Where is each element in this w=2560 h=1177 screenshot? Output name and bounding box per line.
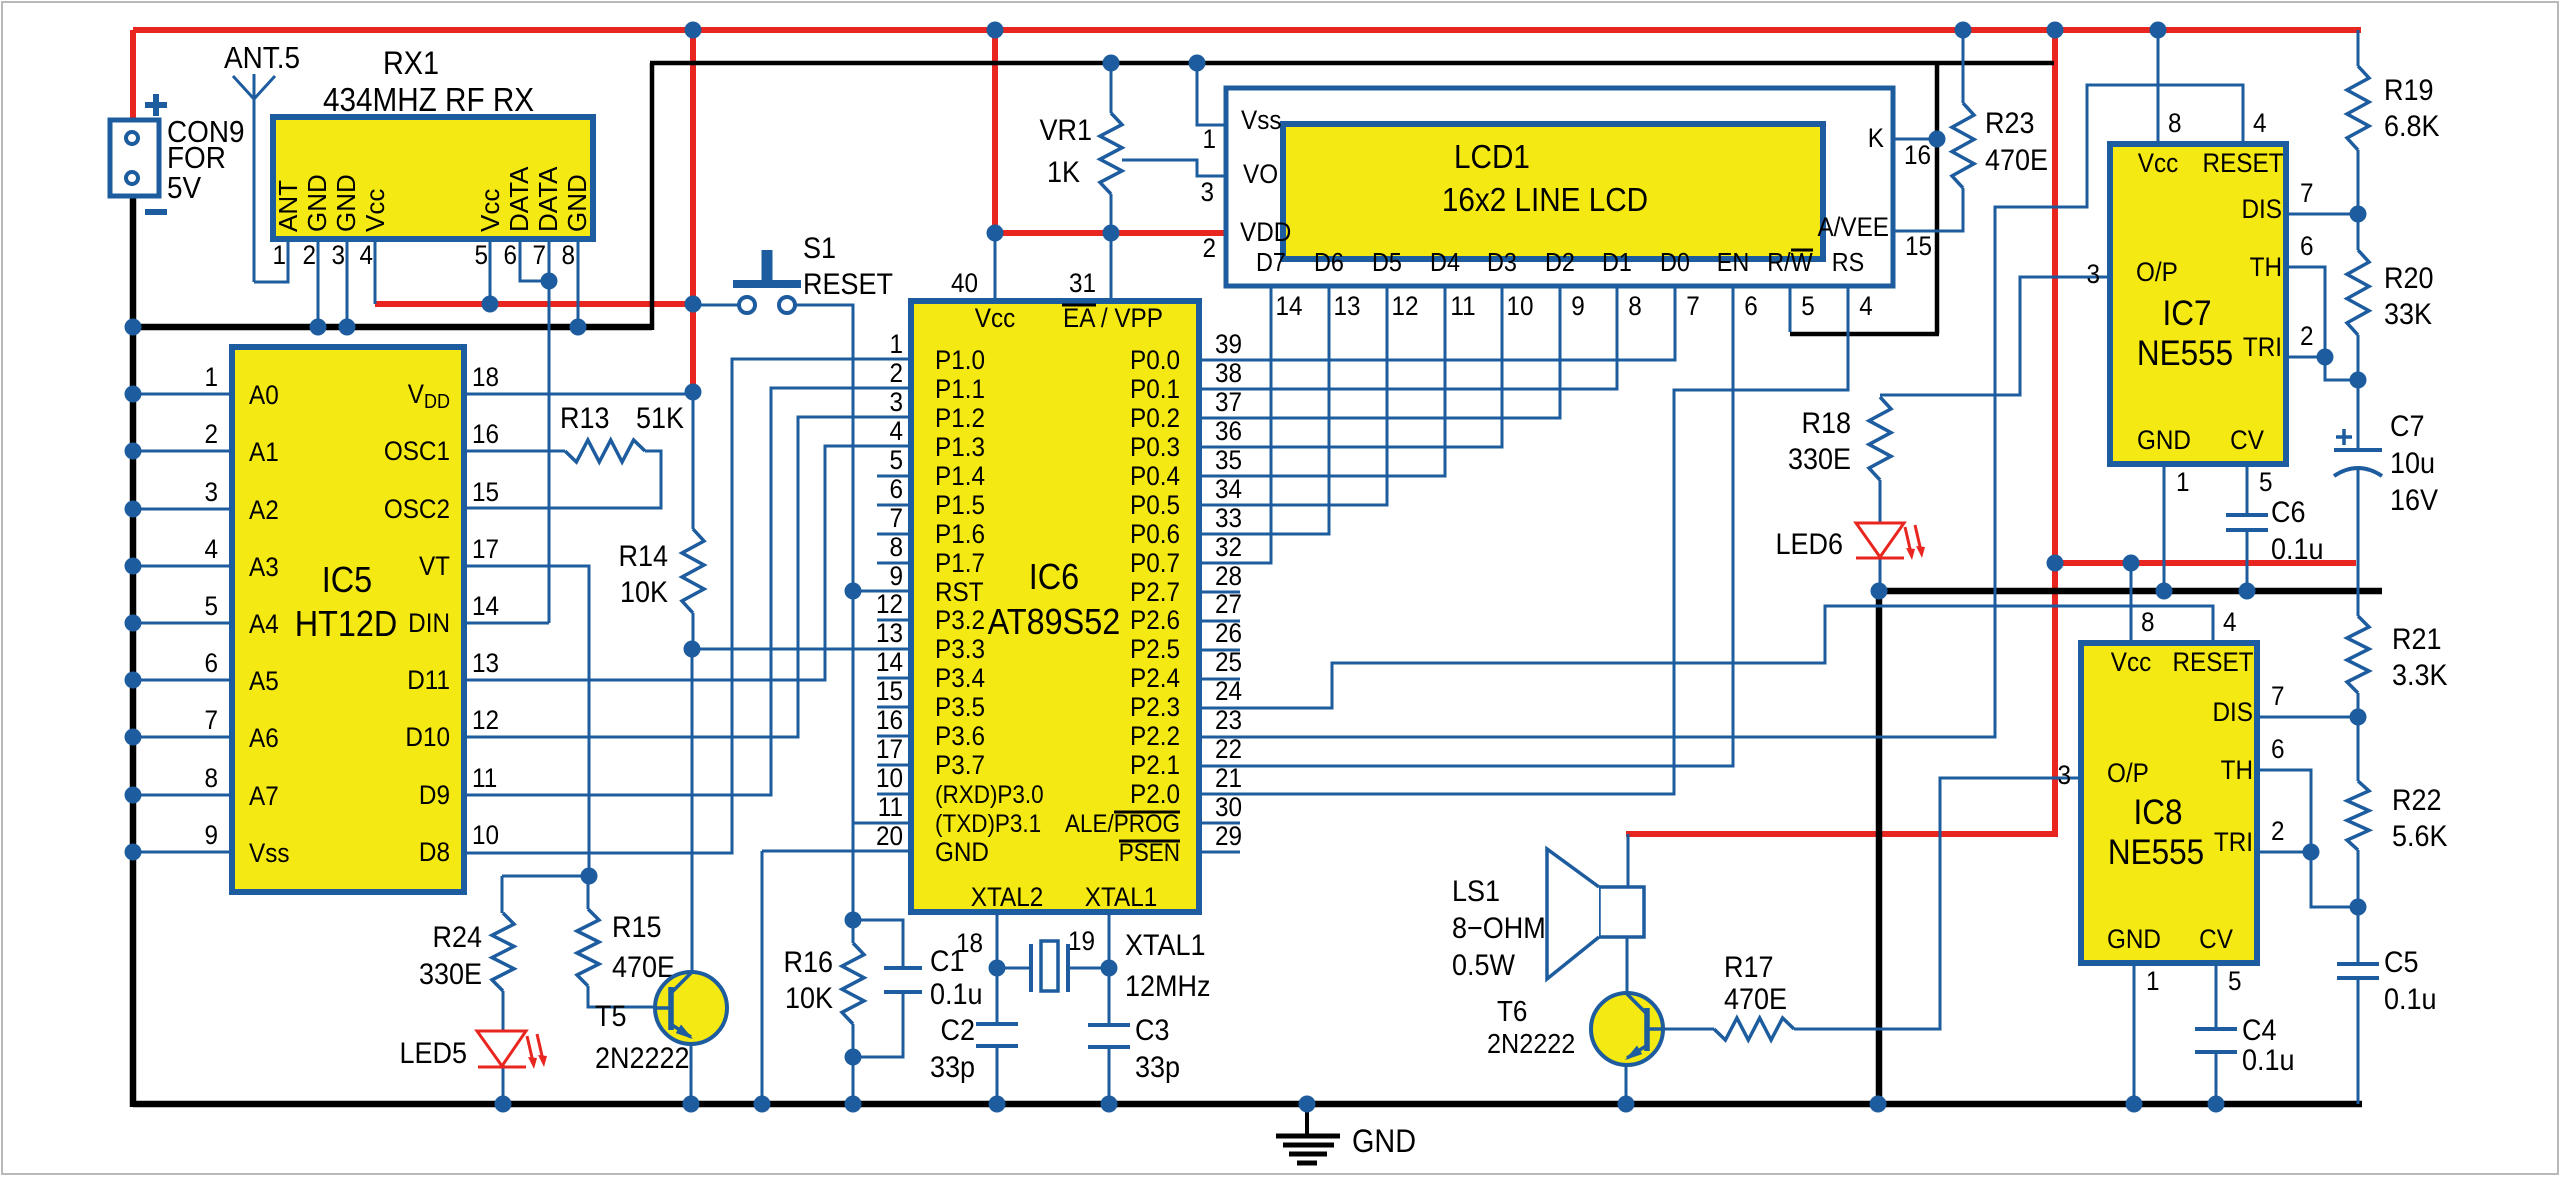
svg-text:8: 8 xyxy=(2168,109,2182,138)
capacitor C3 33p xyxy=(1088,1014,1180,1085)
svg-text:C7: C7 xyxy=(2390,410,2424,444)
svg-text:VDD: VDD xyxy=(1240,218,1291,247)
wire IC7 CV pin5 to C6 xyxy=(2246,464,2249,515)
svg-text:9: 9 xyxy=(889,562,903,591)
svg-text:D6: D6 xyxy=(1314,249,1344,277)
svg-text:R19: R19 xyxy=(2384,74,2433,108)
svg-text:1: 1 xyxy=(889,330,903,359)
svg-text:P2.0: P2.0 xyxy=(1130,780,1180,809)
svg-text:37: 37 xyxy=(1215,388,1242,417)
svg-text:5: 5 xyxy=(474,241,488,270)
antenna ANT.5 vee xyxy=(233,76,275,99)
wire VR1 bottom to +5V xyxy=(1110,194,1113,236)
svg-text:GND: GND xyxy=(2107,925,2161,954)
wire IC5 pin8 A7 to GND xyxy=(133,794,232,797)
svg-text:P2.1: P2.1 xyxy=(1130,751,1180,780)
wire T6 collector xyxy=(1626,937,1629,996)
wire R15 top lead xyxy=(587,876,590,909)
svg-text:3: 3 xyxy=(889,388,903,417)
svg-text:A0: A0 xyxy=(249,381,279,410)
wire IC6 P2.3 pin24 to IC8 RESET pin4 xyxy=(1199,606,2213,708)
svg-text:330E: 330E xyxy=(1788,443,1851,477)
svg-text:IC5: IC5 xyxy=(322,560,372,600)
switch S1 RESET xyxy=(733,232,893,313)
svg-text:P0.1: P0.1 xyxy=(1130,375,1180,404)
wire IC5 D9 pin11 to IC6 P1.1 xyxy=(464,388,911,795)
svg-text:TRI: TRI xyxy=(2214,828,2253,857)
wire GND vertical near LED6 xyxy=(1876,589,1883,1106)
svg-text:GND: GND xyxy=(1352,1124,1416,1160)
wire +5V to speaker LS1 xyxy=(1626,831,2058,837)
wire IC6 P1.7 pin8 stub xyxy=(877,562,911,565)
svg-text:OSC2: OSC2 xyxy=(384,495,450,524)
IC LCD1 16x2 LCD module xyxy=(1200,88,1932,286)
resistor R24 330E xyxy=(419,913,514,991)
wire IC6 P3.5 pin15 stub xyxy=(877,706,911,709)
potentiometer VR1 1K xyxy=(1040,113,1122,194)
svg-text:C2: C2 xyxy=(941,1014,975,1048)
svg-text:15: 15 xyxy=(876,677,903,706)
svg-text:0.1u: 0.1u xyxy=(2242,1044,2295,1078)
svg-text:10K: 10K xyxy=(785,982,833,1016)
svg-text:IC8: IC8 xyxy=(2133,794,2182,833)
svg-text:P1.7: P1.7 xyxy=(935,549,985,578)
svg-text:TH: TH xyxy=(2221,756,2253,785)
junction R16 / C1 bottom xyxy=(845,1049,862,1066)
svg-text:A3: A3 xyxy=(249,553,279,582)
svg-text:40: 40 xyxy=(951,269,978,298)
svg-text:D8: D8 xyxy=(419,838,450,867)
svg-text:15: 15 xyxy=(1905,232,1932,261)
svg-text:434MHZ RF RX: 434MHZ RF RX xyxy=(323,82,534,119)
svg-text:0.1u: 0.1u xyxy=(2271,533,2324,567)
junction RX1 DATA pins xyxy=(541,273,558,290)
svg-text:R14: R14 xyxy=(619,540,669,574)
wire T6 emitter to GND xyxy=(1625,1057,1628,1104)
wire IC6 P2.5 pin26 stub xyxy=(1199,649,1240,652)
junction A6 GND xyxy=(125,729,142,746)
svg-text:XTAL2: XTAL2 xyxy=(971,883,1043,912)
wire IC6 P3.1 pin11 stub xyxy=(877,822,911,825)
svg-text:NE555: NE555 xyxy=(2108,834,2204,873)
svg-text:P1.6: P1.6 xyxy=(935,520,985,549)
overline EA xyxy=(1062,304,1096,307)
svg-text:33p: 33p xyxy=(1135,1051,1180,1085)
svg-text:AT89S52: AT89S52 xyxy=(988,602,1121,642)
svg-text:16: 16 xyxy=(1904,141,1931,170)
capacitor C1 0.1u xyxy=(884,945,983,1012)
svg-text:19: 19 xyxy=(1068,927,1095,956)
wire IC6 P2.1 pin22 to LCD EN xyxy=(1199,286,1733,766)
svg-text:EN: EN xyxy=(1717,249,1749,277)
junction A3 GND xyxy=(125,558,142,575)
svg-text:VT: VT xyxy=(419,552,450,581)
svg-text:D3: D3 xyxy=(1487,249,1517,277)
wire speaker top to +5V xyxy=(1627,834,1630,887)
svg-text:20: 20 xyxy=(876,822,903,851)
wire GND from CON9 minus xyxy=(130,324,652,331)
svg-text:1: 1 xyxy=(2146,967,2160,996)
junction A7 GND xyxy=(125,787,142,804)
wire R21 bottom to DIS node xyxy=(2357,693,2360,717)
wire IC6 XTAL2 pin18 stub xyxy=(996,912,999,968)
wire IC6 P2.7 pin28 stub xyxy=(1199,591,1240,594)
wire RX1 pin6 DATA xyxy=(520,239,549,281)
svg-text:O/P: O/P xyxy=(2107,759,2149,788)
svg-text:Vcc: Vcc xyxy=(360,189,390,232)
svg-text:Vcc: Vcc xyxy=(475,189,505,232)
svg-text:P1.5: P1.5 xyxy=(935,491,985,520)
wire IC6 P2.4 pin25 stub xyxy=(1199,678,1240,681)
svg-text:0.1u: 0.1u xyxy=(2384,983,2437,1017)
wire IC5 D10 pin12 to IC6 P1.2 xyxy=(464,417,911,737)
wire IC5 pin9 Vss to GND xyxy=(133,851,232,854)
svg-text:33: 33 xyxy=(1215,504,1242,533)
svg-text:D9: D9 xyxy=(419,781,450,810)
svg-text:R/W: R/W xyxy=(1767,249,1813,277)
svg-text:DIS: DIS xyxy=(2213,698,2253,727)
svg-text:1K: 1K xyxy=(1047,156,1080,190)
junction IC7 GND / rail xyxy=(2156,583,2173,600)
wire LED6 cathode to GND xyxy=(1879,558,1882,591)
wire IC6 P0.7 pin32 to LCD D7 xyxy=(1199,286,1271,563)
svg-text:12: 12 xyxy=(1391,292,1418,321)
resistor R20 33K xyxy=(2347,250,2433,335)
wire RX1 pin8 GND xyxy=(577,239,580,327)
wire IC6 GND pin20 row xyxy=(762,850,911,853)
junction +5V / IC5 VDD / R14 xyxy=(685,384,702,401)
wire LCD A/VEE pin15 to R23 xyxy=(1893,188,1963,231)
wire IC6 P0.5 pin34 to LCD D5 xyxy=(1199,286,1387,505)
svg-text:P1.0: P1.0 xyxy=(935,346,985,375)
svg-text:GND: GND xyxy=(935,838,989,867)
svg-text:9: 9 xyxy=(1571,292,1585,321)
svg-text:LS1: LS1 xyxy=(1452,875,1500,909)
svg-text:3: 3 xyxy=(331,241,345,270)
wire +5V to CON9 plus xyxy=(130,30,136,122)
svg-text:Vss: Vss xyxy=(1241,106,1281,135)
wire GND segment to R/W xyxy=(1790,332,1939,337)
wire R16 bottom to GND xyxy=(852,1024,855,1104)
svg-text:A6: A6 xyxy=(249,724,279,753)
svg-text:RESET: RESET xyxy=(2173,648,2254,677)
svg-text:24: 24 xyxy=(1215,677,1242,706)
svg-text:9: 9 xyxy=(204,821,218,850)
wire GND riser xyxy=(650,63,655,330)
svg-text:P1.4: P1.4 xyxy=(935,462,985,491)
svg-text:10: 10 xyxy=(1506,292,1533,321)
svg-text:NE555: NE555 xyxy=(2137,335,2233,374)
svg-text:P3.5: P3.5 xyxy=(935,693,985,722)
svg-text:TRI: TRI xyxy=(2243,333,2282,362)
svg-text:23: 23 xyxy=(1215,706,1242,735)
svg-text:5.6K: 5.6K xyxy=(2392,820,2448,854)
svg-text:GND: GND xyxy=(302,174,332,232)
svg-text:7: 7 xyxy=(889,504,903,533)
svg-text:IC6: IC6 xyxy=(1029,557,1079,597)
svg-text:4: 4 xyxy=(1859,292,1873,321)
resistor R14 10K xyxy=(619,529,704,613)
svg-text:D2: D2 xyxy=(1545,249,1575,277)
wire IC7 TRI pin2 stub xyxy=(2285,356,2325,359)
svg-text:P3.3: P3.3 xyxy=(935,635,985,664)
wire IC5 D11 pin13 to IC6 P1.3 xyxy=(464,446,911,680)
junction R21 / R22 / IC8 DIS xyxy=(2350,709,2367,726)
svg-text:8: 8 xyxy=(561,241,575,270)
svg-text:1: 1 xyxy=(1202,125,1216,154)
svg-text:33p: 33p xyxy=(930,1051,975,1085)
wire IC5 D8 pin10 to IC6 P1.0 xyxy=(464,359,911,853)
svg-text:35: 35 xyxy=(1215,446,1242,475)
junction +5V rail / R23 xyxy=(1955,22,1972,39)
wire IC6 ALE/PROG pin30 stub xyxy=(1199,822,1240,825)
wire R17 to T6 base xyxy=(1652,1028,1714,1031)
svg-text:32: 32 xyxy=(1215,533,1242,562)
resistor R13 51K xyxy=(560,402,684,462)
svg-text:P2.7: P2.7 xyxy=(1130,578,1180,607)
overline PROG xyxy=(1114,811,1180,814)
wire C1 top lead xyxy=(853,920,903,968)
svg-text:P2.6: P2.6 xyxy=(1130,606,1180,635)
wire +5V to S1 left contact xyxy=(700,304,740,307)
wire R14 bottom lead xyxy=(692,613,695,649)
svg-text:P0.0: P0.0 xyxy=(1130,346,1180,375)
svg-text:Vcc: Vcc xyxy=(2138,149,2179,178)
svg-text:O/P: O/P xyxy=(2136,258,2178,287)
svg-text:3: 3 xyxy=(2057,761,2071,790)
svg-text:15: 15 xyxy=(472,478,499,507)
svg-text:4: 4 xyxy=(889,417,903,446)
wire +5V drop right side xyxy=(2052,30,2058,836)
svg-text:11: 11 xyxy=(878,793,903,822)
svg-text:C3: C3 xyxy=(1135,1014,1169,1048)
svg-text:12MHz: 12MHz xyxy=(1125,970,1210,1004)
svg-text:1: 1 xyxy=(2176,468,2190,497)
wire IC5 pin4 A3 to GND xyxy=(133,565,232,568)
junction GND / VR1 xyxy=(1103,55,1120,72)
junction RX1 Vcc xyxy=(482,296,499,313)
wire IC6 P3.6 pin16 stub xyxy=(877,735,911,738)
svg-text:7: 7 xyxy=(2271,682,2285,711)
svg-text:5: 5 xyxy=(2259,468,2273,497)
svg-text:10u: 10u xyxy=(2390,447,2435,481)
wire R23 top to +5V xyxy=(1962,30,1965,103)
wire R24 top lead xyxy=(501,876,504,913)
svg-text:C5: C5 xyxy=(2384,946,2418,980)
svg-text:XTAL1: XTAL1 xyxy=(1125,929,1205,963)
junction ground symbol xyxy=(1299,1096,1316,1113)
svg-text:16: 16 xyxy=(876,706,903,735)
svg-text:P2.3: P2.3 xyxy=(1130,693,1180,722)
svg-text:14: 14 xyxy=(472,592,499,621)
svg-text:P0.5: P0.5 xyxy=(1130,491,1180,520)
wire R19 to DIS node xyxy=(2357,150,2360,214)
wire VT node to R24 xyxy=(502,875,590,878)
IC IC6 AT89S52 microcontroller xyxy=(876,269,1242,958)
junction T6 emitter GND xyxy=(1618,1096,1635,1113)
junction C2 GND xyxy=(989,1096,1006,1113)
wire RX1 pin7 DATA to IC5 DIN xyxy=(548,239,551,623)
svg-text:ALE/PROG: ALE/PROG xyxy=(1065,810,1180,838)
LED LED5 xyxy=(400,1031,547,1070)
svg-text:2: 2 xyxy=(302,241,316,270)
wire +5V from RX1 Vcc pins xyxy=(375,301,694,307)
wire IC5 VDD pin18 to +5V node xyxy=(464,393,693,396)
wire R22 bottom lead xyxy=(2357,850,2360,907)
svg-text:D5: D5 xyxy=(1372,249,1402,277)
wire IC8 TH pin6 to TRI node xyxy=(2257,770,2358,907)
svg-text:HT12D: HT12D xyxy=(295,604,398,644)
wire IC5 DIN pin14 xyxy=(464,622,549,625)
wire IC8 CV pin5 to C4 xyxy=(2215,964,2218,1029)
wire IC6 XTAL1 pin19 stub xyxy=(1108,912,1111,968)
svg-text:16: 16 xyxy=(472,420,499,449)
svg-text:4: 4 xyxy=(2253,109,2267,138)
svg-text:S1: S1 xyxy=(803,232,836,266)
wire VR1 wiper to LCD VO pin3 xyxy=(1122,160,1227,176)
wire IC6 Vcc pin40 stub xyxy=(994,233,997,301)
svg-text:P2.4: P2.4 xyxy=(1130,664,1180,693)
svg-text:R13: R13 xyxy=(560,402,609,436)
junction LED6 / GND xyxy=(1871,583,1888,600)
svg-text:P2.2: P2.2 xyxy=(1130,722,1180,751)
overline W of R/W xyxy=(1791,249,1813,252)
resistor R18 330E xyxy=(1788,397,1891,480)
svg-text:13: 13 xyxy=(876,619,903,648)
svg-text:ANT: ANT xyxy=(273,180,303,232)
svg-text:2: 2 xyxy=(2271,817,2285,846)
svg-text:P2.5: P2.5 xyxy=(1130,635,1180,664)
svg-text:10: 10 xyxy=(472,821,499,850)
wire VR1 top to GND xyxy=(1110,63,1113,113)
svg-text:13: 13 xyxy=(1333,292,1360,321)
svg-text:D7: D7 xyxy=(1256,249,1286,277)
svg-text:VR1: VR1 xyxy=(1040,114,1092,148)
wire R16 top lead xyxy=(852,920,855,943)
resistor R17 470E xyxy=(1714,951,1794,1040)
wire +5V top rail xyxy=(133,27,2361,33)
wire C5 bottom to GND xyxy=(2357,978,2360,1104)
svg-text:34: 34 xyxy=(1215,475,1242,504)
svg-text:8−OHM: 8−OHM xyxy=(1452,912,1546,946)
svg-text:13: 13 xyxy=(472,649,499,678)
svg-text:D1: D1 xyxy=(1602,249,1632,277)
svg-text:P0.6: P0.6 xyxy=(1130,520,1180,549)
svg-text:7: 7 xyxy=(532,241,546,270)
svg-text:8: 8 xyxy=(889,533,903,562)
wire IC7 TH pin6 to TRI node xyxy=(2285,267,2358,380)
wire IC6 P1.5 pin6 stub xyxy=(877,504,911,507)
svg-text:7: 7 xyxy=(204,706,218,735)
svg-text:D4: D4 xyxy=(1430,249,1460,277)
junction +5V rail right drop xyxy=(2047,22,2064,39)
wire IC6 P3.2 pin12 stub xyxy=(877,619,911,622)
svg-text:R23: R23 xyxy=(1985,107,2034,141)
wire IC6 P2.2 pin23 to IC7 RESET pin4 xyxy=(1199,85,2243,737)
wire +5V drop to IC6 Vcc xyxy=(992,30,998,236)
svg-text:A1: A1 xyxy=(249,438,279,467)
junction +5V rail / IC7 Vcc xyxy=(2150,22,2167,39)
wire IC6 P3.4 pin14 stub xyxy=(877,677,911,680)
svg-text:A7: A7 xyxy=(249,782,279,811)
svg-text:PSEN: PSEN xyxy=(1119,839,1180,867)
wire +5V VDD line to LCD pin 2 xyxy=(995,230,1227,236)
wire R19 top to +5V xyxy=(2357,30,2360,66)
svg-text:3: 3 xyxy=(1200,178,1214,207)
wire IC6 RST pin9 stub xyxy=(853,590,911,593)
wire IC6 P2.6 pin27 stub xyxy=(1199,620,1240,623)
wire LCD R/W pin5 to GND xyxy=(1789,286,1792,332)
svg-text:P0.7: P0.7 xyxy=(1130,549,1180,578)
svg-text:6: 6 xyxy=(1744,292,1758,321)
svg-text:K: K xyxy=(1868,124,1884,153)
junction LCD K / GND drop xyxy=(1929,131,1946,148)
svg-text:470E: 470E xyxy=(1985,144,2048,178)
svg-text:5: 5 xyxy=(1801,292,1815,321)
svg-text:A5: A5 xyxy=(249,667,279,696)
svg-text:0.1u: 0.1u xyxy=(930,978,983,1012)
junction +5V drop / IC8 feed xyxy=(2047,555,2064,572)
svg-text:D11: D11 xyxy=(407,666,450,695)
svg-text:RX1: RX1 xyxy=(383,46,439,82)
svg-text:2: 2 xyxy=(1202,234,1216,263)
capacitor C4 0.1u xyxy=(2195,1014,2295,1078)
svg-text:P3.7: P3.7 xyxy=(935,751,985,780)
wire C5 top lead xyxy=(2357,907,2360,964)
svg-text:36: 36 xyxy=(1215,417,1242,446)
svg-text:6: 6 xyxy=(889,475,903,504)
svg-text:0.5W: 0.5W xyxy=(1452,949,1515,983)
junction Vss GND xyxy=(125,844,142,861)
svg-text:6: 6 xyxy=(2300,232,2314,261)
resistor R23 470E xyxy=(1952,103,2048,188)
junction IC8 GND rail xyxy=(2126,1096,2143,1113)
svg-text:A2: A2 xyxy=(249,496,279,525)
svg-text:R17: R17 xyxy=(1724,951,1773,985)
svg-text:EA / VPP: EA / VPP xyxy=(1063,304,1163,333)
svg-text:C1: C1 xyxy=(930,945,964,979)
svg-text:R24: R24 xyxy=(433,921,483,955)
junction IC6 GND rail xyxy=(754,1096,771,1113)
svg-text:DATA: DATA xyxy=(533,166,563,232)
svg-text:5V: 5V xyxy=(167,171,201,206)
wire IC6 P3.7 pin17 stub xyxy=(877,764,911,767)
wire IC6 PSEN pin29 stub xyxy=(1199,851,1240,854)
junction +5V / IC8 Vcc xyxy=(2123,555,2140,572)
LCD data pin labels xyxy=(1256,249,1873,321)
junction A5 GND xyxy=(125,672,142,689)
junction VT / R15 / R24 xyxy=(581,868,598,885)
svg-text:1: 1 xyxy=(204,363,218,392)
svg-text:22: 22 xyxy=(1215,735,1242,764)
wire IC8 GND pin1 to GND xyxy=(2133,964,2136,1104)
svg-text:25: 25 xyxy=(1215,648,1242,677)
wire GND drop to LCD K and R/W xyxy=(1935,63,1940,334)
svg-text:14: 14 xyxy=(876,648,903,677)
svg-text:470E: 470E xyxy=(1724,983,1787,1017)
svg-text:16V: 16V xyxy=(2390,484,2438,518)
wire LCD K pin16 to GND xyxy=(1893,138,1937,141)
svg-text:1: 1 xyxy=(272,241,286,270)
wire C3 top lead xyxy=(1108,968,1111,1025)
svg-text:5: 5 xyxy=(2228,967,2242,996)
junction RX1 pin8 GND xyxy=(570,319,587,336)
svg-text:(TXD)P3.1: (TXD)P3.1 xyxy=(935,810,1041,838)
wire T5 collector xyxy=(691,649,694,975)
svg-text:R15: R15 xyxy=(612,911,661,945)
svg-text:C6: C6 xyxy=(2271,496,2305,530)
svg-text:P0.4: P0.4 xyxy=(1130,462,1180,491)
